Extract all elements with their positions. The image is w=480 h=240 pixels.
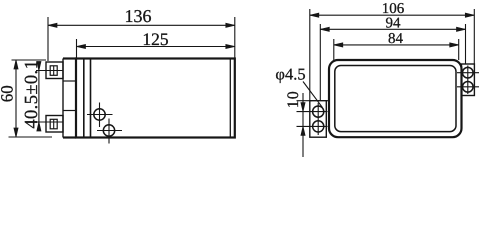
left view: top clamp tab inner square bbox=[50, 66, 57, 76]
left view: cover lip inner line (right) bbox=[229, 59, 231, 138]
dimension 84: dimension line bbox=[334, 44, 459, 46]
dimension 60: arrowheads bbox=[14, 60, 18, 69]
dimension 94: extension line right bbox=[465, 24, 467, 64]
left view: rivet upper crosshair bbox=[87, 114, 113, 116]
dimension 84: arrowheads bbox=[334, 43, 343, 47]
left view: top clamp tab outer square bbox=[46, 62, 63, 79]
dimension 125: arrowheads bbox=[77, 44, 86, 48]
dimension 125: dimension line bbox=[77, 46, 235, 48]
right view: top-right ear crosshairs bbox=[457, 72, 479, 74]
right view: cover outer outline bbox=[329, 60, 462, 137]
dimension 60: extension line bottom bbox=[9, 136, 53, 138]
right view: top-right ear hole upper bbox=[463, 67, 474, 78]
left view: rivet circle upper bbox=[94, 109, 105, 120]
dimension 84: extension line left bbox=[333, 39, 335, 60]
dimension 60: extension line top bbox=[12, 59, 47, 61]
left view: flange top block bottom edge bbox=[63, 80, 76, 82]
right view: cover inner outline bbox=[335, 66, 456, 132]
left view: flange top edge bbox=[63, 57, 76, 59]
left view: rivet lower crosshair bbox=[97, 130, 122, 132]
left view: bottom clamp tab outer square bbox=[46, 116, 63, 133]
svg-text:94: 94 bbox=[386, 15, 402, 31]
left view: inner vertical line 2 bbox=[90, 59, 92, 138]
svg-text:60: 60 bbox=[0, 85, 17, 102]
svg-text:40.5±0.1: 40.5±0.1 bbox=[22, 60, 42, 129]
right view: top-right mounting ear bbox=[462, 64, 475, 96]
dimension 125: extension line left bbox=[76, 39, 78, 59]
svg-text:φ4.5: φ4.5 bbox=[275, 65, 305, 84]
svg-text:10: 10 bbox=[285, 90, 302, 108]
right view: bottom-left ear top edge extension bbox=[297, 100, 313, 102]
right view: bottom-left mounting ear bbox=[310, 101, 327, 138]
dimension 136: dimension line bbox=[48, 24, 235, 26]
dimension 106: extension line left bbox=[309, 9, 311, 101]
dimension 106: extension line right bbox=[473, 9, 475, 64]
dimension 106: arrowheads bbox=[310, 13, 319, 17]
dimension 136: arrowheads bbox=[48, 23, 57, 27]
dimension 10: arrowheads (outside) bbox=[301, 103, 305, 112]
left view: mounting flange left edge bbox=[62, 59, 64, 138]
left view: top tab hole wall line bbox=[53, 66, 55, 76]
dimension 40.5±0.1: dimension line bbox=[38, 62, 40, 130]
callout phi4.5: leader line bbox=[303, 82, 322, 108]
dimension 94: arrowheads bbox=[320, 27, 329, 31]
dimension 84: extension line right bbox=[458, 39, 460, 60]
dimension 94: dimension line bbox=[320, 28, 465, 30]
left view: relay body outline bbox=[76, 59, 235, 138]
right view: top-right ear hole lower bbox=[463, 82, 474, 93]
right view: bottom-left ear hole lower bbox=[313, 121, 324, 132]
left view: flange bottom block top edge bbox=[63, 110, 76, 112]
dimension 40.5±0.1: arrowheads (outside) bbox=[37, 62, 41, 71]
left view: top hole centerline bbox=[36, 70, 63, 72]
left view: inner vertical line 1 bbox=[83, 59, 85, 138]
svg-text:84: 84 bbox=[388, 31, 404, 47]
dimension 136/125: extension line right bbox=[234, 17, 236, 59]
left view: bottom clamp tab inner square bbox=[50, 119, 57, 129]
left view: bottom tab hole wall line bbox=[53, 119, 55, 129]
right view: bottom-left ear hole upper bbox=[313, 106, 324, 117]
svg-text:136: 136 bbox=[125, 6, 152, 26]
svg-text:125: 125 bbox=[142, 29, 169, 49]
left view: flange bottom edge bbox=[63, 136, 76, 138]
dimension 60: dimension line bbox=[15, 60, 17, 137]
left view: rivet circle lower bbox=[103, 125, 114, 136]
dimension 106: dimension line bbox=[310, 14, 475, 16]
dimension 136: extension line left bbox=[47, 17, 49, 61]
left view: bottom hole centerline bbox=[36, 121, 63, 123]
dimension 10: dimension line bbox=[302, 93, 304, 157]
dimension 94: extension line left bbox=[319, 24, 321, 101]
right view: bottom-left ear crosshairs bbox=[297, 111, 328, 113]
